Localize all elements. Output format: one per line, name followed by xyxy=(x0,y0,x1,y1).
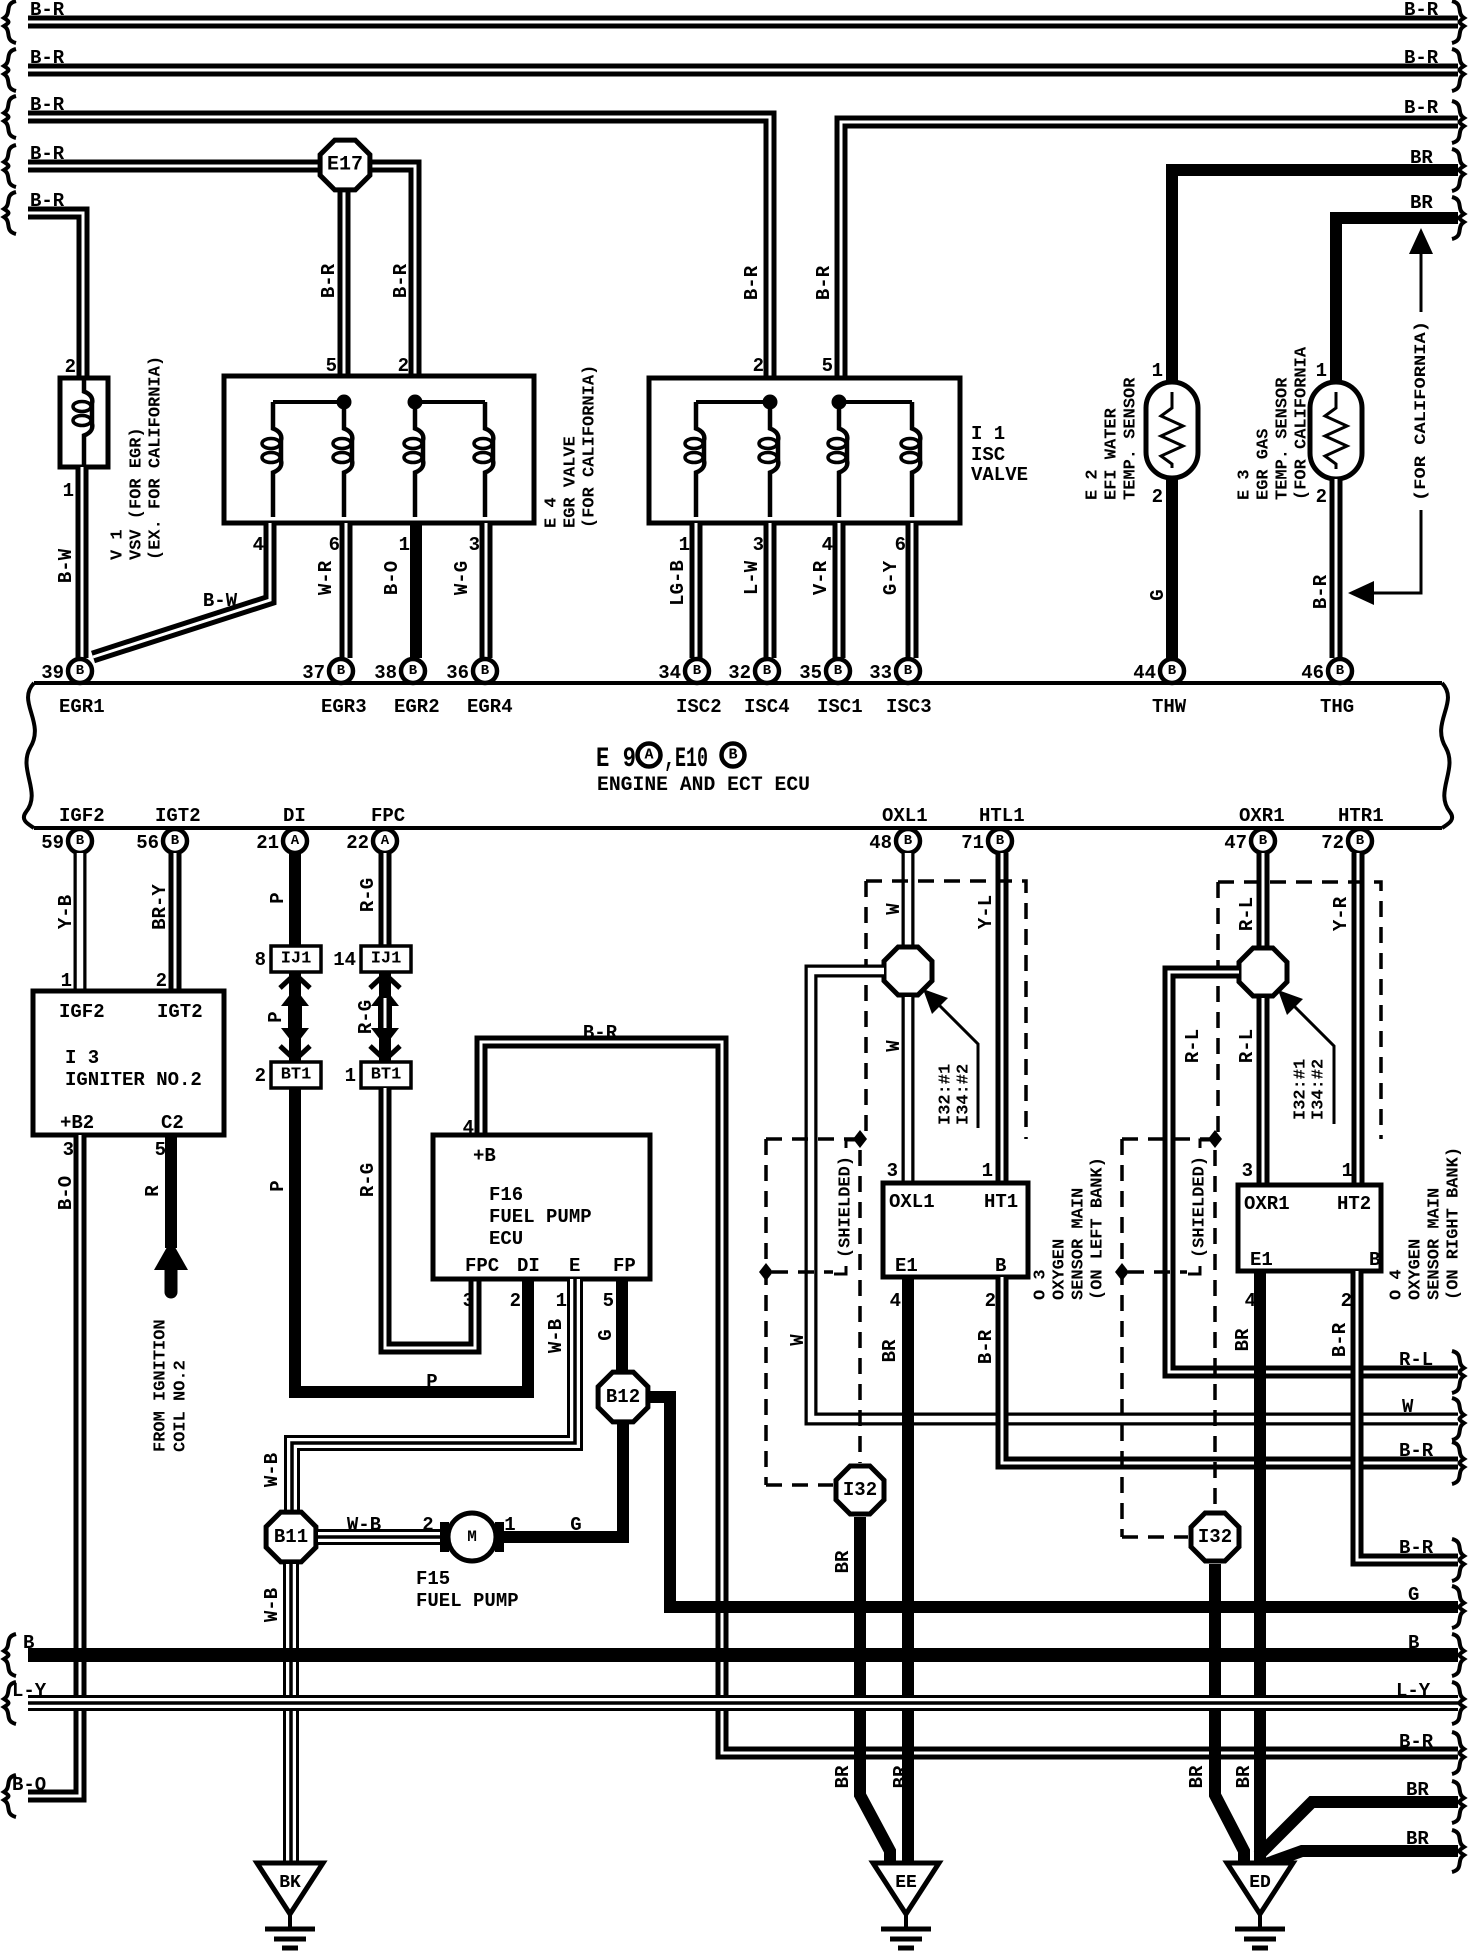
wire R from igniter C2 down xyxy=(165,1135,177,1248)
wire BR from right edge to EFI water temp sensor xyxy=(1172,170,1458,386)
svg-text:B: B xyxy=(693,663,702,679)
wire bus B-R line 1 xyxy=(28,16,1458,29)
junction dot ISC pair 1 xyxy=(763,395,778,410)
coil 1 inside EGR valve xyxy=(262,402,281,517)
wire bus B-R line 2 xyxy=(28,64,1458,77)
svg-text:E: E xyxy=(569,1255,580,1277)
wire BR from OXL1 E1 to ground EE xyxy=(902,1277,914,1863)
svg-text:B-R: B-R xyxy=(1329,1322,1351,1357)
label I32:#1 I34:#2 left xyxy=(937,1064,974,1125)
ground EE xyxy=(873,1863,939,1948)
svg-text:2: 2 xyxy=(1152,486,1163,508)
label O 3 OXYGEN SENSOR MAIN (ON LEFT BANK) xyxy=(1032,1157,1108,1300)
wire inside ISC valve pair 2 top bar xyxy=(839,400,912,404)
svg-text:FP: FP xyxy=(613,1255,636,1277)
wire B-W from V1 pin 1 to ECU pin 39 xyxy=(76,467,89,658)
svg-text:5: 5 xyxy=(155,1139,166,1161)
svg-text:I32:#1: I32:#1 xyxy=(1292,1059,1311,1120)
wire W-B from B11 to ground BK xyxy=(283,1564,299,1863)
right brace B-R line 3 xyxy=(1452,101,1464,143)
ground BK xyxy=(257,1863,323,1948)
node diamond on left shield edge xyxy=(759,1263,773,1281)
svg-text:P: P xyxy=(426,1371,437,1393)
svg-text:(EX. FOR CALIFORNIA): (EX. FOR CALIFORNIA) xyxy=(147,356,166,560)
svg-text:71: 71 xyxy=(961,832,984,854)
svg-text:B-R: B-R xyxy=(975,1329,997,1364)
svg-text:+B2: +B2 xyxy=(60,1112,94,1134)
svg-text:(FOR CALIFORNIA): (FOR CALIFORNIA) xyxy=(1412,321,1430,501)
label I32:#1 I34:#2 right xyxy=(1292,1059,1329,1120)
resistor zigzag inside E3 xyxy=(1325,392,1347,469)
junction connector BT1 (pin 1) xyxy=(345,1062,411,1088)
svg-text:G: G xyxy=(570,1514,581,1536)
right brace W bus xyxy=(1452,1398,1464,1440)
svg-text:V-R: V-R xyxy=(810,560,832,595)
wire Y-B from ECU pin 59 to igniter IGF2 xyxy=(74,853,87,991)
svg-text:B: B xyxy=(1336,663,1345,679)
wire B-R from fuel pump ECU +B to right edge xyxy=(481,1042,1458,1753)
svg-text:BR: BR xyxy=(832,1550,854,1573)
ECU pin 46 (THG) xyxy=(1301,659,1352,684)
ECU band left wavy edge xyxy=(24,683,35,828)
svg-text:3: 3 xyxy=(63,1139,74,1161)
wire B-O from igniter +B2 down to left edge xyxy=(28,1135,80,1796)
wire V-R from ISC pin 4 to ECU pin 35 xyxy=(833,523,846,658)
wire L-W from ISC pin 3 to ECU pin 32 xyxy=(764,523,777,658)
svg-text:E17: E17 xyxy=(327,154,363,177)
wire bus B-R line 3 right segment from ISC pin 5 xyxy=(841,122,1458,384)
right brace R-L bus xyxy=(1452,1351,1464,1393)
right brace B bus xyxy=(1452,1634,1464,1676)
svg-text:R-G: R-G xyxy=(355,1000,377,1034)
junction connector BT1 (pin 2) xyxy=(255,1062,321,1088)
right brace BR line 4 xyxy=(1452,149,1464,191)
connector E17 xyxy=(320,140,370,190)
svg-text:BR: BR xyxy=(1406,1828,1429,1850)
coil 2 inside EGR valve xyxy=(333,402,352,517)
svg-text:FUEL PUMP: FUEL PUMP xyxy=(416,1590,519,1612)
svg-text:8: 8 xyxy=(255,949,266,971)
wire W from ECU pin 48 to octagon xyxy=(902,853,915,948)
connector octagon left oxygen sensor xyxy=(884,947,932,995)
ECU band right wavy edge xyxy=(1441,683,1452,828)
svg-text:V 1: V 1 xyxy=(109,529,128,560)
svg-text:B-W: B-W xyxy=(55,548,77,583)
wire inside EGR valve pair 1 top bar xyxy=(273,400,344,404)
wire P from BT1 to fuel pump ECU DI xyxy=(295,1088,528,1392)
right brace B-R bus lower xyxy=(1452,1539,1464,1581)
svg-text:B-R: B-R xyxy=(30,190,65,212)
svg-text:DI: DI xyxy=(517,1255,540,1277)
svg-text:HT1: HT1 xyxy=(984,1191,1018,1213)
wire W-G from EGR pin 3 to ECU pin 36 xyxy=(480,523,493,658)
svg-text:FUEL PUMP: FUEL PUMP xyxy=(489,1206,592,1228)
wire bus B-R line 4 left segment to E17 xyxy=(28,160,345,173)
svg-text:IGT2: IGT2 xyxy=(157,1001,203,1023)
ground ED xyxy=(1227,1863,1293,1948)
svg-text:B: B xyxy=(409,663,418,679)
connector I32 no.1 xyxy=(836,1466,884,1514)
svg-text:E 9: E 9 xyxy=(596,744,636,775)
note arrow up (FOR CALIFORNIA) xyxy=(1409,228,1433,312)
wire inside EGR valve pair 2 top bar xyxy=(415,400,485,404)
svg-text:BT1: BT1 xyxy=(281,1066,312,1085)
svg-text:C2: C2 xyxy=(161,1112,184,1134)
svg-text:(ON LEFT BANK): (ON LEFT BANK) xyxy=(1089,1157,1108,1300)
wire W from left octagon to OXL1 pin 3 xyxy=(902,997,915,1183)
label F15 FUEL PUMP xyxy=(416,1568,519,1612)
left brace B-R line 2 xyxy=(4,49,16,91)
svg-text:B-R: B-R xyxy=(741,265,763,300)
svg-text:,E10: ,E10 xyxy=(664,744,708,775)
right brace BR line 5 xyxy=(1452,197,1464,239)
wire W shield lead from left octagon to right edge xyxy=(811,971,1458,1419)
connector B11 xyxy=(266,1512,316,1562)
ECU pin 44 (THW) xyxy=(1133,659,1184,684)
svg-text:B-R: B-R xyxy=(1399,1440,1434,1462)
oxygen sensor connector box OXR1/HT2 xyxy=(1238,1185,1381,1271)
svg-text:OXR1: OXR1 xyxy=(1239,805,1285,827)
svg-text:I 3: I 3 xyxy=(65,1047,99,1069)
left brace B bus xyxy=(4,1634,16,1676)
svg-text:IGF2: IGF2 xyxy=(59,805,105,827)
ECU pin 47 (OXR1) xyxy=(1224,829,1275,854)
svg-text:B: B xyxy=(834,663,843,679)
svg-text:ISC2: ISC2 xyxy=(676,696,722,718)
svg-text:B-R: B-R xyxy=(1404,97,1439,119)
svg-text:1: 1 xyxy=(1152,360,1163,382)
ECU pin 21 (DI) xyxy=(256,829,307,854)
wire bus B-R line 5 to VSV pin 2 xyxy=(28,213,83,384)
svg-text:3: 3 xyxy=(469,534,480,556)
svg-text:59: 59 xyxy=(41,832,64,854)
right brace B-R bottom bus xyxy=(1452,1732,1464,1774)
svg-text:B: B xyxy=(995,1255,1006,1277)
svg-text:(FOR CALIFORNIA: (FOR CALIFORNIA xyxy=(1293,346,1312,500)
svg-text:1: 1 xyxy=(982,1160,993,1182)
svg-text:2: 2 xyxy=(1316,486,1327,508)
svg-text:ECU: ECU xyxy=(489,1228,523,1250)
igniter I3 box xyxy=(33,991,224,1135)
svg-text:OXR1: OXR1 xyxy=(1244,1193,1290,1215)
svg-text:BK: BK xyxy=(279,1873,301,1893)
svg-text:IJ1: IJ1 xyxy=(281,950,312,969)
svg-text:44: 44 xyxy=(1133,662,1156,684)
junction dot EGR pair 1 xyxy=(337,395,352,410)
node diamond on left shield top xyxy=(853,1130,867,1148)
svg-text:2: 2 xyxy=(398,355,409,377)
svg-text:THG: THG xyxy=(1320,696,1354,718)
svg-text:SENSOR MAIN: SENSOR MAIN xyxy=(1426,1188,1445,1300)
svg-text:6: 6 xyxy=(895,534,906,556)
wire BR from right edge to EGR gas temp sensor xyxy=(1336,218,1458,386)
svg-text:3: 3 xyxy=(753,534,764,556)
svg-text:G: G xyxy=(595,1329,617,1340)
svg-text:Y-R: Y-R xyxy=(1330,896,1352,931)
svg-text:I34:#2: I34:#2 xyxy=(955,1064,974,1125)
svg-text:LG-B: LG-B xyxy=(667,560,689,606)
svg-text:48: 48 xyxy=(869,832,892,854)
svg-text:1: 1 xyxy=(556,1290,567,1312)
svg-text:38: 38 xyxy=(374,662,397,684)
connector chevron arrows IJ1-BT1 pair 2 xyxy=(370,974,400,1060)
wire R-L from ECU pin 47 to octagon xyxy=(1257,853,1270,948)
svg-text:2: 2 xyxy=(1341,1290,1352,1312)
svg-text:3: 3 xyxy=(1242,1160,1253,1182)
svg-text:OXYGEN: OXYGEN xyxy=(1051,1239,1070,1300)
svg-text:1: 1 xyxy=(63,480,74,502)
svg-text:32: 32 xyxy=(728,662,751,684)
svg-text:B-R: B-R xyxy=(30,94,65,116)
svg-text:R-G: R-G xyxy=(357,1163,379,1197)
junction connector IJ1 (pin 8) xyxy=(255,946,321,972)
ECU pin 38 (EGR2) xyxy=(374,659,425,684)
node diamond on right shield top xyxy=(1208,1130,1222,1148)
note pointer elbow with left arrowhead xyxy=(1348,510,1421,605)
svg-text:I 1: I 1 xyxy=(971,423,1005,445)
left brace B-R line 5 xyxy=(4,192,16,234)
wire B bus xyxy=(28,1648,1458,1662)
svg-text:B: B xyxy=(23,1632,34,1654)
svg-text:34: 34 xyxy=(658,662,681,684)
svg-text:BR: BR xyxy=(879,1339,901,1362)
svg-text:EGR GAS: EGR GAS xyxy=(1255,429,1274,500)
sensor E3 EGR gas temp sensor capsule xyxy=(1310,382,1362,479)
svg-text:W: W xyxy=(787,1334,809,1346)
svg-text:ISC3: ISC3 xyxy=(886,696,932,718)
wire R-L from right octagon to OXR1 pin 3 xyxy=(1257,998,1270,1185)
svg-text:EE: EE xyxy=(895,1873,917,1893)
oxygen sensor connector box OXL1/HT1 xyxy=(883,1183,1028,1277)
wire BR from OXR1 E1 to ground ED xyxy=(1254,1271,1266,1863)
shield dashed box around right octagon xyxy=(1218,882,1381,1139)
svg-text:Y-L: Y-L xyxy=(975,895,997,929)
wire G from B12 to G bus at right xyxy=(648,1397,670,1607)
svg-text:B: B xyxy=(337,663,346,679)
svg-text:W: W xyxy=(883,1040,905,1052)
svg-text:B-R: B-R xyxy=(30,143,65,165)
wire B-R from E17 right to EGR pin 2 xyxy=(345,166,415,382)
shield outer dashed line right group xyxy=(1122,1139,1218,1537)
wire B-W from EGR pin 4 diagonal to ECU pin 39 xyxy=(93,523,270,657)
svg-text:14: 14 xyxy=(333,949,356,971)
svg-text:22: 22 xyxy=(346,832,369,854)
wire LG-B from ISC pin 1 to ECU pin 34 xyxy=(690,523,703,658)
svg-text:EGR3: EGR3 xyxy=(321,696,367,718)
svg-text:E 2: E 2 xyxy=(1084,469,1103,500)
svg-text:G: G xyxy=(1408,1584,1419,1606)
svg-text:B-R: B-R xyxy=(1404,0,1439,21)
svg-text:EGR2: EGR2 xyxy=(394,696,440,718)
svg-text:E1: E1 xyxy=(895,1255,918,1277)
svg-text:B11: B11 xyxy=(274,1526,308,1548)
svg-text:B-R: B-R xyxy=(813,265,835,300)
svg-text:5: 5 xyxy=(603,1290,614,1312)
wire R-G from ECU pin 22 to junction IJ1 xyxy=(379,853,392,946)
svg-text:VSV (FOR EGR): VSV (FOR EGR) xyxy=(128,427,147,560)
svg-text:R-L: R-L xyxy=(1236,1029,1258,1063)
svg-text:(ON RIGHT BANK): (ON RIGHT BANK) xyxy=(1445,1147,1464,1300)
wire Y-R from ECU pin 72 to OXR1 HT2 xyxy=(1352,853,1365,1185)
svg-text:ISC: ISC xyxy=(971,444,1005,466)
svg-text:1: 1 xyxy=(345,1065,356,1087)
svg-text:B: B xyxy=(1369,1249,1380,1271)
svg-text:B: B xyxy=(1168,663,1177,679)
svg-text:4: 4 xyxy=(822,534,833,556)
ECU pin 33 (ISC3) xyxy=(869,659,920,684)
svg-text:G-Y: G-Y xyxy=(880,560,902,595)
ECU pin 59 (IGF2) xyxy=(41,829,92,854)
svg-text:F15: F15 xyxy=(416,1568,450,1590)
svg-text:BR: BR xyxy=(1233,1765,1255,1788)
svg-text:B-R: B-R xyxy=(390,263,412,298)
svg-text:5: 5 xyxy=(326,355,337,377)
svg-text:W-B: W-B xyxy=(261,1588,283,1622)
svg-text:FPC: FPC xyxy=(371,805,405,827)
svg-text:I34:#2: I34:#2 xyxy=(1310,1059,1329,1120)
svg-text:B: B xyxy=(904,833,913,849)
coil 4 inside ISC valve xyxy=(901,402,920,517)
left brace B-R line 3 xyxy=(4,96,16,138)
svg-text:39: 39 xyxy=(41,662,64,684)
svg-text:W-B: W-B xyxy=(261,1453,283,1487)
fuel pump ECU F16 box xyxy=(433,1135,650,1279)
svg-text:I32: I32 xyxy=(843,1479,877,1501)
svg-text:O 3: O 3 xyxy=(1032,1269,1051,1300)
svg-text:B-O: B-O xyxy=(381,561,403,595)
left brace B-R line 1 xyxy=(4,1,16,43)
ECU pin 22 (FPC) xyxy=(346,829,397,854)
label E 4 EGR VALVE (FOR CALIFORNIA) xyxy=(543,365,600,528)
svg-text:HTL1: HTL1 xyxy=(979,805,1025,827)
ECU band bottom edge xyxy=(34,826,1442,830)
svg-text:72: 72 xyxy=(1321,832,1344,854)
wire R-L shield lead from right octagon to right edge xyxy=(1169,972,1458,1372)
svg-text:R-L: R-L xyxy=(1236,897,1258,931)
bracket marks for right (SHIELDED) xyxy=(1188,1140,1212,1274)
svg-text:OXL1: OXL1 xyxy=(889,1191,935,1213)
svg-text:P: P xyxy=(267,892,289,903)
coil 3 inside EGR valve xyxy=(404,402,423,517)
svg-text:E1: E1 xyxy=(1250,1249,1273,1271)
wire G bus from B12 to right edge xyxy=(664,1601,1458,1613)
left brace B-O xyxy=(4,1775,16,1817)
svg-text:B-R: B-R xyxy=(30,47,65,69)
wire W-B from fuel pump ECU E to connector B11 xyxy=(292,1279,575,1512)
svg-text:B: B xyxy=(1356,833,1365,849)
svg-text:Y-B: Y-B xyxy=(55,895,77,929)
svg-text:B: B xyxy=(481,663,490,679)
label FROM IGNITION COIL NO.2 xyxy=(152,1319,191,1452)
shield dashed box around left octagon xyxy=(866,881,1026,1139)
svg-text:L-Y: L-Y xyxy=(1396,1680,1431,1702)
svg-text:BR: BR xyxy=(890,1765,912,1788)
svg-text:4: 4 xyxy=(253,534,264,556)
ECU pin 37 (EGR3) xyxy=(302,659,353,684)
ECU pin 32 (ISC4) xyxy=(728,659,779,684)
svg-text:VALVE: VALVE xyxy=(971,464,1028,486)
svg-text:HTR1: HTR1 xyxy=(1338,805,1384,827)
wire BR from I32 no.2 to ground ED xyxy=(1215,1564,1244,1863)
svg-text:ENGINE AND ECT ECU: ENGINE AND ECT ECU xyxy=(597,774,810,797)
svg-text:THW: THW xyxy=(1152,696,1187,718)
right brace B-R bus upper xyxy=(1452,1442,1464,1484)
svg-text:2: 2 xyxy=(65,356,76,378)
left brace L-Y bus xyxy=(4,1682,16,1724)
svg-text:B: B xyxy=(76,833,85,849)
svg-text:(FOR CALIFORNIA): (FOR CALIFORNIA) xyxy=(581,365,600,528)
svg-text:1: 1 xyxy=(679,534,690,556)
svg-text:E 3: E 3 xyxy=(1236,469,1255,500)
svg-text:M: M xyxy=(467,1528,477,1546)
svg-text:B: B xyxy=(76,663,85,679)
svg-text:TEMP. SENSOR: TEMP. SENSOR xyxy=(1122,377,1141,500)
svg-text:IJ1: IJ1 xyxy=(371,950,402,969)
wire bus B-R line 3 left segment to ISC pin 2 xyxy=(28,117,770,384)
svg-text:21: 21 xyxy=(256,832,279,854)
label E 3 EGR GAS TEMP. SENSOR (FOR CALIFORNIA) xyxy=(1236,346,1312,500)
wire BR bus no.2 to ground ED xyxy=(1266,1851,1458,1864)
svg-text:B: B xyxy=(1259,833,1268,849)
svg-text:B: B xyxy=(728,747,737,764)
svg-text:O 4: O 4 xyxy=(1388,1269,1407,1300)
svg-text:2: 2 xyxy=(422,1514,433,1536)
svg-text:W: W xyxy=(1402,1396,1414,1418)
left brace B-R line 4 xyxy=(4,145,16,187)
svg-text:L-W: L-W xyxy=(741,560,763,595)
svg-text:4: 4 xyxy=(890,1290,901,1312)
svg-text:B: B xyxy=(904,663,913,679)
junction dot EGR pair 2 xyxy=(408,395,423,410)
right brace B-R line 1 xyxy=(1452,1,1464,43)
svg-text:EGR VALVE: EGR VALVE xyxy=(562,436,581,528)
svg-text:BR-Y: BR-Y xyxy=(149,884,171,930)
svg-text:P: P xyxy=(267,1180,289,1191)
svg-text:B: B xyxy=(996,833,1005,849)
valve V1 VSV box xyxy=(60,378,108,467)
svg-text:E 4: E 4 xyxy=(543,497,562,528)
svg-text:EGR4: EGR4 xyxy=(467,696,513,718)
svg-text:W-B: W-B xyxy=(347,1514,381,1536)
svg-text:+B: +B xyxy=(473,1145,496,1167)
label F16 FUEL PUMP ECU xyxy=(489,1184,592,1250)
coil 3 inside ISC valve xyxy=(828,402,847,517)
svg-text:37: 37 xyxy=(302,662,325,684)
svg-text:BR: BR xyxy=(1406,1779,1429,1801)
svg-text:ISC4: ISC4 xyxy=(744,696,790,718)
label I 3 IGNITER NO.2 xyxy=(65,1047,202,1091)
ECU pin 48 (OXL1) xyxy=(869,829,920,854)
wire G from E2 pin 2 to ECU pin 44 xyxy=(1166,478,1178,658)
fuel pump F15 motor xyxy=(440,1513,504,1561)
ECU pin 34 (ISC2) xyxy=(658,659,709,684)
right brace L-Y bus xyxy=(1452,1682,1464,1724)
label V 1 VSV (FOR EGR) (EX. FOR CALIFORNIA) xyxy=(109,356,166,560)
svg-text:6: 6 xyxy=(329,534,340,556)
wire B-O from EGR pin 1 to ECU pin 38 xyxy=(410,523,422,658)
wire G from fuel pump ECU FP to connector B12 xyxy=(616,1279,628,1372)
svg-text:B-R: B-R xyxy=(1404,47,1439,69)
ECU pin 56 (IGT2) xyxy=(136,829,187,854)
svg-text:I32: I32 xyxy=(1198,1526,1232,1548)
svg-text:FPC: FPC xyxy=(465,1255,499,1277)
svg-text:ISC1: ISC1 xyxy=(817,696,863,718)
label E 2 EFI WATER TEMP. SENSOR xyxy=(1084,377,1141,500)
valve E4 EGR valve box xyxy=(224,376,534,523)
svg-text:ED: ED xyxy=(1249,1873,1271,1893)
wire R-G between IJ1 and BT1 no.2 xyxy=(379,972,391,1062)
wire B-R from HT2 B to right edge xyxy=(1357,1271,1458,1560)
